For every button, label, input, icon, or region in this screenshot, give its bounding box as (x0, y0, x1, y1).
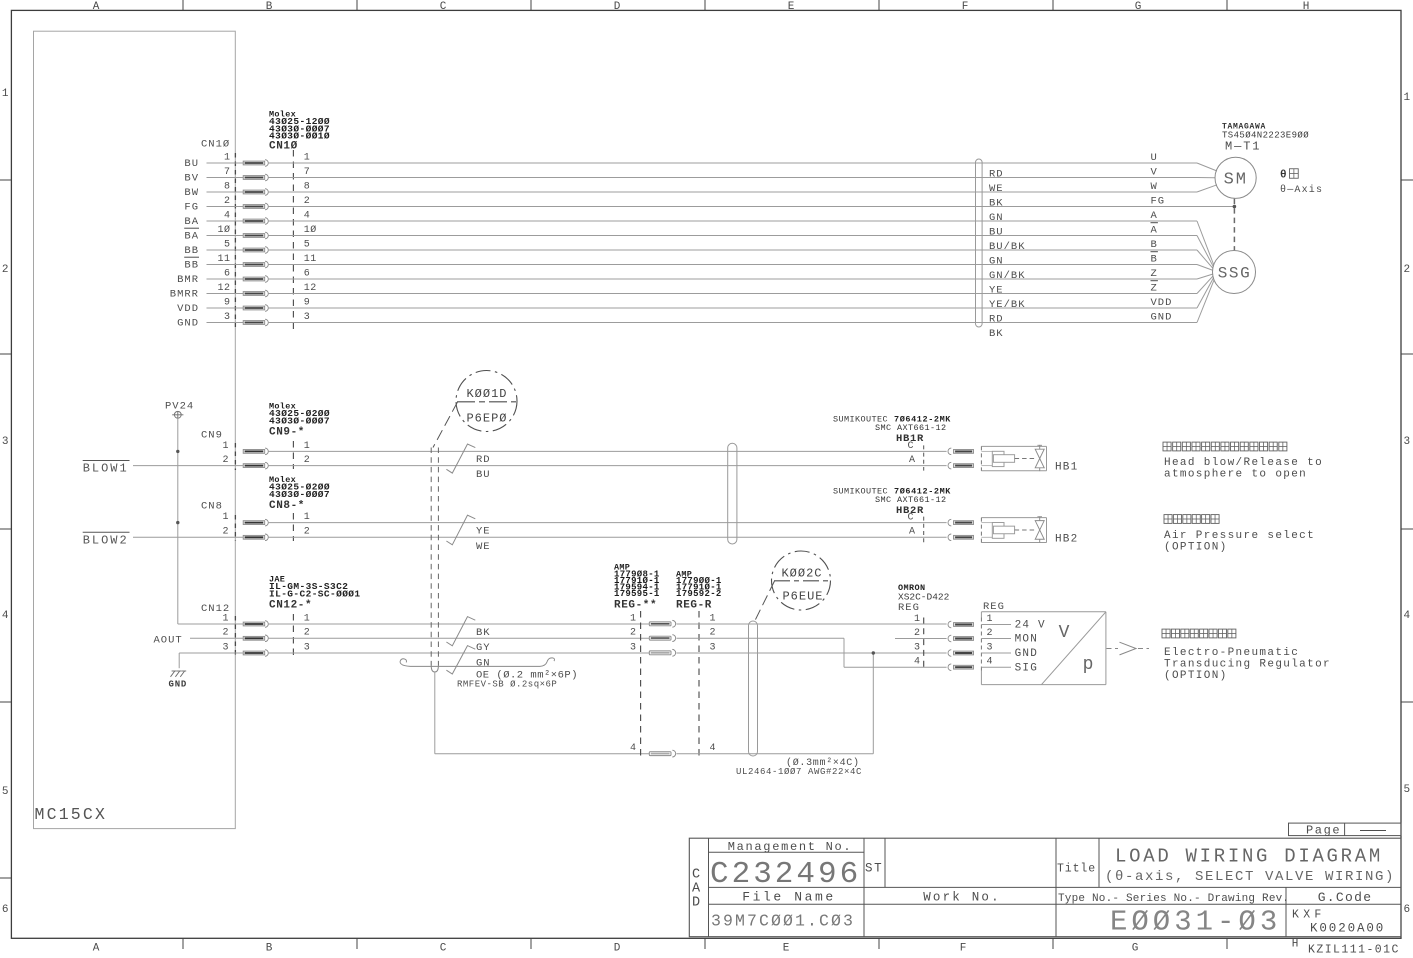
svg-text:1: 1 (630, 613, 637, 624)
svg-text:2: 2 (630, 628, 637, 639)
wire CN10 pin 6 to motor (YE) (269, 278, 1197, 280)
svg-text:A: A (909, 455, 916, 466)
svg-text:9: 9 (304, 297, 311, 308)
svg-text:2: 2 (304, 196, 311, 207)
svg-text:1: 1 (304, 613, 311, 624)
svg-text:MON: MON (1015, 634, 1038, 646)
svg-text:MC15CX: MC15CX (35, 805, 108, 824)
svg-text:6: 6 (304, 268, 311, 279)
svg-text:UL2464-1ØØ7 AWG#22×4C: UL2464-1ØØ7 AWG#22×4C (736, 767, 862, 777)
wire colour mark RD/BU (446, 444, 475, 473)
svg-text:(θ-axis, SELECT VALVE WIRING): (θ-axis, SELECT VALVE WIRING) (1105, 869, 1395, 885)
svg-text:CN8-*: CN8-* (269, 500, 305, 512)
svg-text:4: 4 (914, 657, 921, 668)
valve HB1 hourglass symbol (1015, 458, 1035, 460)
svg-text:RD: RD (989, 314, 1004, 326)
shield wire OE down to REG pin4 row (434, 672, 436, 754)
junction dot PV24/CN8.1 (176, 521, 179, 524)
wire CN10 pin 12 to motor (YE/BK) (269, 293, 1197, 295)
svg-text:BK: BK (989, 328, 1004, 340)
wire CN10 pin 11 to motor (GN/BK) (269, 264, 1197, 266)
svg-text:WE: WE (989, 183, 1004, 195)
svg-text:GN/BK: GN/BK (989, 270, 1026, 282)
svg-text:CN12-*: CN12-* (269, 600, 312, 612)
junction dot GND/shield (872, 651, 875, 654)
shield tie line with hooks (400, 659, 414, 667)
svg-text:REG-R: REG-R (676, 600, 712, 612)
svg-text:H: H (1292, 939, 1299, 951)
svg-text:8: 8 (304, 181, 311, 192)
wire colour mark YE/WE (446, 515, 475, 545)
svg-text:REG: REG (983, 601, 1005, 613)
svg-text:C: C (440, 1, 447, 13)
svg-text:43Ø3Ø-ØØØ7: 43Ø3Ø-ØØØ7 (269, 489, 330, 500)
svg-text:RMFEV-SB Ø.2sq×6P: RMFEV-SB Ø.2sq×6P (457, 680, 557, 690)
connector CN10 boundary dashes (234, 153, 236, 327)
svg-text:BLOW2: BLOW2 (83, 534, 129, 548)
svg-text:2: 2 (710, 628, 717, 639)
wire CN10 pin 9 to motor (RD) (269, 307, 1197, 309)
annotation air pressure (jp) (1164, 515, 1172, 524)
svg-text:AOUT: AOUT (154, 634, 183, 646)
svg-text:BK: BK (989, 198, 1004, 210)
svg-text:EØØ31-Ø3: EØØ31-Ø3 (1110, 906, 1281, 939)
valve HB2 hourglass symbol (1015, 529, 1035, 531)
svg-text:BLOW1: BLOW1 (83, 462, 129, 476)
cable dashed pair (CN9/CN8/CN12 harness) (430, 448, 432, 666)
wire BLOW2 to CN8 pin 2 (133, 536, 243, 538)
svg-text:p: p (1083, 655, 1094, 675)
svg-text:3: 3 (222, 642, 229, 653)
connector HB2 boundary dashes (923, 517, 925, 543)
wire fan-in to motor SM (U,V,W) (1197, 163, 1217, 171)
svg-text:BU: BU (184, 158, 199, 170)
connector CN9 boundary dashes (234, 443, 236, 470)
svg-text:B: B (266, 943, 273, 955)
leader K001D to cable (433, 402, 458, 448)
svg-text:8: 8 (224, 181, 231, 192)
svg-text:2: 2 (304, 628, 311, 639)
svg-text:CN9: CN9 (201, 430, 223, 442)
svg-text:3: 3 (1403, 436, 1410, 448)
svg-text:1: 1 (1403, 92, 1410, 104)
svg-text:ST: ST (865, 862, 883, 876)
svg-text:2: 2 (222, 628, 229, 639)
socket HB2 A (948, 534, 951, 541)
svg-text:Title: Title (1057, 863, 1096, 876)
wire CN12 pin 1 to REG connector (269, 623, 650, 625)
frame row ticks left (0, 179, 11, 181)
svg-text:YE/BK: YE/BK (989, 299, 1026, 311)
svg-text:GN: GN (476, 658, 491, 670)
svg-text:A: A (1151, 225, 1158, 237)
svg-text:2: 2 (222, 527, 229, 538)
svg-text:U: U (1151, 152, 1158, 164)
svg-text:LOAD WIRING DIAGRAM: LOAD WIRING DIAGRAM (1115, 846, 1383, 868)
svg-text:M—T1: M—T1 (1225, 140, 1261, 154)
wire CN10 pin 1 to motor (RD) (269, 162, 1197, 164)
svg-text:A: A (1151, 210, 1158, 222)
svg-text:1: 1 (914, 614, 921, 625)
svg-text:VDD: VDD (1151, 297, 1173, 309)
svg-text:3: 3 (630, 642, 637, 653)
svg-text:2: 2 (914, 628, 921, 639)
svg-text:7: 7 (224, 167, 231, 178)
wire REG-R pin1 to REG socket 1 (24V) (677, 623, 947, 625)
svg-text:3: 3 (710, 642, 717, 653)
svg-text:θ—Axis: θ—Axis (1280, 184, 1323, 196)
svg-text:6: 6 (224, 268, 231, 279)
svg-text:1Ø: 1Ø (217, 224, 230, 236)
svg-text:C: C (908, 512, 915, 523)
svg-text:W: W (1151, 181, 1158, 193)
svg-text:3: 3 (304, 312, 311, 323)
svg-text:B: B (266, 1, 273, 13)
svg-text:BU: BU (989, 227, 1004, 239)
svg-text:1: 1 (2, 88, 9, 100)
svg-text:7: 7 (304, 167, 311, 178)
svg-text:5: 5 (304, 239, 311, 250)
cable bundle at CN10 harness (976, 159, 983, 327)
connector REG boundary dashes (923, 618, 925, 671)
svg-text:Management No.: Management No. (728, 840, 853, 854)
svg-text:3: 3 (224, 312, 231, 323)
svg-text:43Ø3Ø-ØØØ7: 43Ø3Ø-ØØØ7 (269, 416, 330, 427)
wire BLOW1 to CN9 pin 2 (133, 465, 243, 467)
svg-text:D: D (614, 1, 621, 13)
socket REG pin 3 (948, 650, 951, 657)
svg-text:C232496: C232496 (710, 857, 861, 892)
connector REG-R boundary dashes (698, 611, 700, 757)
svg-text:GND: GND (169, 680, 188, 690)
svg-text:SIG: SIG (1015, 662, 1038, 674)
svg-text:GND: GND (1151, 312, 1173, 324)
svg-text:SMC AXT661-12: SMC AXT661-12 (875, 495, 947, 505)
svg-text:1: 1 (222, 512, 229, 523)
svg-text:FG: FG (1151, 196, 1166, 208)
leader K002C to cable (755, 581, 775, 622)
svg-text:A: A (909, 527, 916, 538)
regulator pin 3 GND (981, 652, 1011, 654)
stub wire REG pin2 MON (895, 638, 947, 640)
svg-text:D: D (614, 943, 621, 955)
regulator pin 2 MON (981, 638, 1011, 640)
svg-text:REG: REG (898, 602, 920, 614)
svg-text:24 V: 24 V (1015, 620, 1046, 632)
connector REG-** boundary dashes (640, 611, 642, 757)
svg-text:11: 11 (304, 254, 317, 265)
wire AOUT to CN12 pin 2 (190, 637, 243, 639)
svg-text:2: 2 (987, 628, 994, 639)
cable balloon K002C / P6EUE (772, 551, 831, 610)
svg-text:FG: FG (184, 201, 199, 213)
svg-text:YE: YE (989, 285, 1004, 297)
svg-text:File Name: File Name (742, 890, 836, 905)
socket REG pin 2 (948, 635, 951, 642)
svg-text:4: 4 (2, 610, 9, 622)
svg-text:1: 1 (987, 614, 994, 625)
svg-text:Transducing Regulator: Transducing Regulator (1164, 659, 1331, 671)
svg-text:1Ø: 1Ø (304, 224, 317, 236)
svg-text:SM: SM (1224, 171, 1248, 190)
svg-text:39M7CØØ1.CØ3: 39M7CØØ1.CØ3 (711, 912, 855, 931)
svg-text:4: 4 (630, 743, 637, 754)
svg-text:1: 1 (304, 152, 311, 163)
title block Page box (1289, 823, 1402, 836)
svg-text:atmosphere to open: atmosphere to open (1164, 469, 1307, 481)
svg-text:GND: GND (177, 317, 199, 329)
svg-text:WE: WE (476, 541, 491, 553)
cable balloon K001D / P6EP0 (456, 371, 517, 432)
svg-text:6: 6 (1403, 904, 1410, 916)
svg-text:C: C (908, 441, 915, 452)
svg-text:5: 5 (2, 786, 9, 798)
svg-text:CN1Ø: CN1Ø (201, 139, 230, 151)
svg-text:BW: BW (184, 187, 199, 199)
svg-text:KØØ2C: KØØ2C (781, 567, 822, 581)
svg-text:3: 3 (987, 642, 994, 653)
wire FG to motor frame (1197, 206, 1234, 208)
wire CN10 pin 10 to motor (BU/BK) (269, 235, 1197, 237)
svg-text:Type No.- Series No.- Drawing: Type No.- Series No.- Drawing Rev. (1058, 893, 1289, 905)
svg-text:RD: RD (989, 169, 1004, 181)
svg-text:XS2C-D422: XS2C-D422 (898, 592, 950, 603)
svg-text:B: B (1151, 239, 1158, 251)
svg-text:D: D (692, 896, 700, 911)
svg-text:4: 4 (987, 657, 994, 668)
controller MC15CX outline box (34, 31, 236, 828)
svg-text:1: 1 (222, 613, 229, 624)
wire colour mark BK/GY (446, 617, 475, 646)
annotation head blow (jp) (1163, 442, 1171, 451)
svg-text:YE: YE (476, 525, 491, 537)
svg-text:G: G (1135, 1, 1142, 13)
svg-text:A: A (93, 943, 100, 955)
svg-text:RD: RD (476, 454, 491, 466)
svg-text:Page: Page (1306, 823, 1341, 837)
svg-text:C: C (440, 943, 447, 955)
svg-text:1: 1 (304, 441, 311, 452)
svg-text:4: 4 (224, 210, 231, 221)
svg-text:K0020A00: K0020A00 (1310, 922, 1385, 936)
svg-text:Work No.: Work No. (923, 891, 1001, 905)
svg-text:4: 4 (304, 210, 311, 221)
svg-text:2: 2 (304, 455, 311, 466)
svg-text:1: 1 (710, 613, 717, 624)
wire REG-R pin4 shield return (677, 753, 874, 755)
svg-text:GY: GY (476, 642, 491, 654)
socket HB1 A (948, 462, 951, 469)
svg-text:G: G (1132, 943, 1139, 955)
svg-text:5: 5 (1403, 784, 1410, 796)
frame row ticks right (1401, 179, 1413, 181)
svg-text:11: 11 (217, 254, 230, 265)
wire REG-R pin3 to REG GND (677, 652, 947, 654)
wire CN12 pin 3 to GND (179, 652, 243, 654)
svg-text:CN9-*: CN9-* (269, 427, 305, 439)
valve HB2 body box (981, 517, 1046, 519)
wire colour mark GN/OE (446, 646, 475, 674)
svg-text:BB: BB (184, 259, 199, 271)
svg-text:GN: GN (989, 212, 1004, 224)
svg-text:G.Code: G.Code (1318, 890, 1373, 905)
wire CN9 pin 2 (BU) to HB1 A (269, 465, 947, 467)
svg-text:Head blow/Release to: Head blow/Release to (1164, 457, 1323, 469)
svg-text:2: 2 (222, 455, 229, 466)
svg-text:3: 3 (2, 436, 9, 448)
frame column ticks bottom (182, 938, 184, 949)
svg-text:1: 1 (222, 441, 229, 452)
svg-text:F: F (962, 1, 969, 13)
svg-text:BV: BV (184, 172, 199, 184)
svg-text:H: H (1303, 1, 1310, 13)
svg-text:(OPTION): (OPTION) (1164, 670, 1228, 682)
svg-text:5: 5 (224, 239, 231, 250)
junction dot FG / shield (1233, 205, 1237, 209)
svg-text:2: 2 (224, 196, 231, 207)
wire fan-in to encoder SSG (1197, 221, 1214, 265)
valve HB2 solenoid coil (981, 522, 992, 524)
svg-text:BU/BK: BU/BK (989, 241, 1026, 253)
wire CN12 pin 3 to REG connector (269, 652, 650, 654)
svg-text:θ: θ (1280, 170, 1287, 182)
regulator V/p symbol (1042, 612, 1106, 685)
svg-text:SSG: SSG (1218, 265, 1252, 283)
wire CN10 pin 2 to motor (GN) (269, 206, 1197, 208)
wire CN12 pin 2 to REG connector (269, 637, 650, 639)
wire REG-R pin2 to REG SIG (step down) (677, 637, 845, 639)
svg-text:P6EPØ: P6EPØ (466, 412, 507, 426)
svg-text:BMRR: BMRR (170, 288, 199, 300)
valve HB1 solenoid coil (981, 450, 992, 452)
socket REG pin 1 (948, 621, 951, 628)
wire PV24 down to CN8/CN12 pin1 (177, 451, 179, 522)
svg-text:Z: Z (1151, 283, 1158, 295)
socket REG pin 4 (948, 664, 951, 671)
junction dot PV24/CN9.1 (176, 450, 179, 453)
svg-text:(OPTION): (OPTION) (1164, 542, 1228, 554)
svg-text:Electro-Pneumatic: Electro-Pneumatic (1164, 647, 1299, 659)
regulator pin 1 24 V (981, 624, 1011, 626)
svg-text:A: A (692, 882, 701, 897)
wire CN8 pin 2 (WE) to HB2 A (269, 536, 947, 538)
svg-text:6: 6 (2, 904, 9, 916)
svg-text:179592-2: 179592-2 (676, 589, 722, 599)
svg-text:P6EUE: P6EUE (782, 590, 823, 604)
svg-text:4: 4 (710, 743, 717, 754)
wire CN9 pin 1 (RD) to HB1 C (269, 450, 947, 452)
svg-text:CN8: CN8 (201, 501, 223, 513)
svg-text:1: 1 (224, 152, 231, 163)
svg-text:PV24: PV24 (165, 401, 194, 413)
motor SM circle (1215, 157, 1256, 198)
svg-text:E: E (783, 943, 790, 955)
svg-text:12: 12 (217, 283, 230, 294)
wire CN8 pin 1 (YE) to HB2 C (269, 522, 947, 524)
cable bundle pill at HB harness (728, 443, 737, 544)
svg-text:C: C (692, 868, 700, 883)
svg-text:12: 12 (304, 283, 317, 294)
svg-text:179595-1: 179595-1 (614, 589, 660, 599)
cable bundle REG cable pill (749, 621, 758, 756)
valve HB1 body box (981, 445, 1046, 447)
svg-text:KXF: KXF (1292, 909, 1326, 922)
connector CN12 boundary dashes (234, 616, 236, 657)
svg-text:BA: BA (184, 216, 199, 228)
ground symbol GND (171, 671, 175, 677)
connector CN8 boundary dashes (234, 515, 236, 541)
svg-text:HB2: HB2 (1055, 533, 1078, 545)
frame column ticks top (182, 0, 184, 10)
svg-text:GND: GND (1015, 648, 1038, 660)
title block outline (689, 838, 1401, 937)
svg-text:9: 9 (224, 297, 231, 308)
svg-text:REG-**: REG-** (614, 600, 657, 612)
wire CN10 pin 3 to motor (BK) (269, 322, 1197, 324)
svg-text:Air Pressure select: Air Pressure select (1164, 530, 1315, 542)
regulator pin 4 SIG (981, 666, 1011, 668)
svg-text:B: B (1151, 254, 1158, 266)
svg-text:KZIL111-01C: KZIL111-01C (1308, 944, 1400, 957)
wire CN10 pin 8 to motor (BK) (269, 191, 1197, 193)
encoder SSG circle (1213, 251, 1256, 294)
svg-text:BB: BB (184, 245, 199, 257)
svg-text:BMR: BMR (177, 274, 199, 286)
svg-text:IL-G-C2-SC-ØØØ1: IL-G-C2-SC-ØØØ1 (269, 589, 361, 600)
svg-text:HB1: HB1 (1055, 462, 1078, 474)
socket HB2 C (948, 519, 951, 526)
socket HB1 C (948, 448, 951, 455)
wire CN10 pin 5 to motor (GN) (269, 249, 1197, 251)
svg-text:Z: Z (1151, 268, 1158, 280)
wire PV24 vertical to CN12 pin 1 (178, 623, 243, 625)
svg-text:2: 2 (2, 264, 9, 276)
svg-text:F: F (960, 943, 967, 955)
svg-text:1: 1 (304, 512, 311, 523)
dashed link SM to SSG (shaft) (1233, 199, 1235, 251)
svg-text:KØØ1D: KØØ1D (466, 387, 507, 401)
svg-text:BU: BU (476, 469, 491, 481)
wire CN10 pin 4 to motor (BU) (269, 220, 1197, 222)
svg-text:V: V (1151, 167, 1158, 179)
regulator body box (981, 611, 1106, 613)
svg-text:GN: GN (989, 256, 1004, 268)
annotation regulator (jp) (1162, 629, 1170, 638)
svg-text:2: 2 (1403, 264, 1410, 276)
svg-text:VDD: VDD (177, 303, 199, 315)
svg-text:V: V (1059, 623, 1070, 643)
regulator output dashed arrow (1107, 648, 1119, 650)
svg-text:E: E (788, 1, 795, 13)
svg-text:BK: BK (476, 627, 491, 639)
wire CN10 pin 7 to motor (WE) (269, 177, 1197, 179)
svg-text:2: 2 (304, 527, 311, 538)
svg-text:4: 4 (1403, 610, 1410, 622)
connector HB1 boundary dashes (923, 445, 925, 470)
svg-text:A: A (93, 1, 100, 13)
svg-text:3: 3 (304, 642, 311, 653)
svg-text:3: 3 (914, 642, 921, 653)
svg-text:SMC AXT661-12: SMC AXT661-12 (875, 423, 947, 433)
svg-text:BA: BA (184, 230, 199, 242)
